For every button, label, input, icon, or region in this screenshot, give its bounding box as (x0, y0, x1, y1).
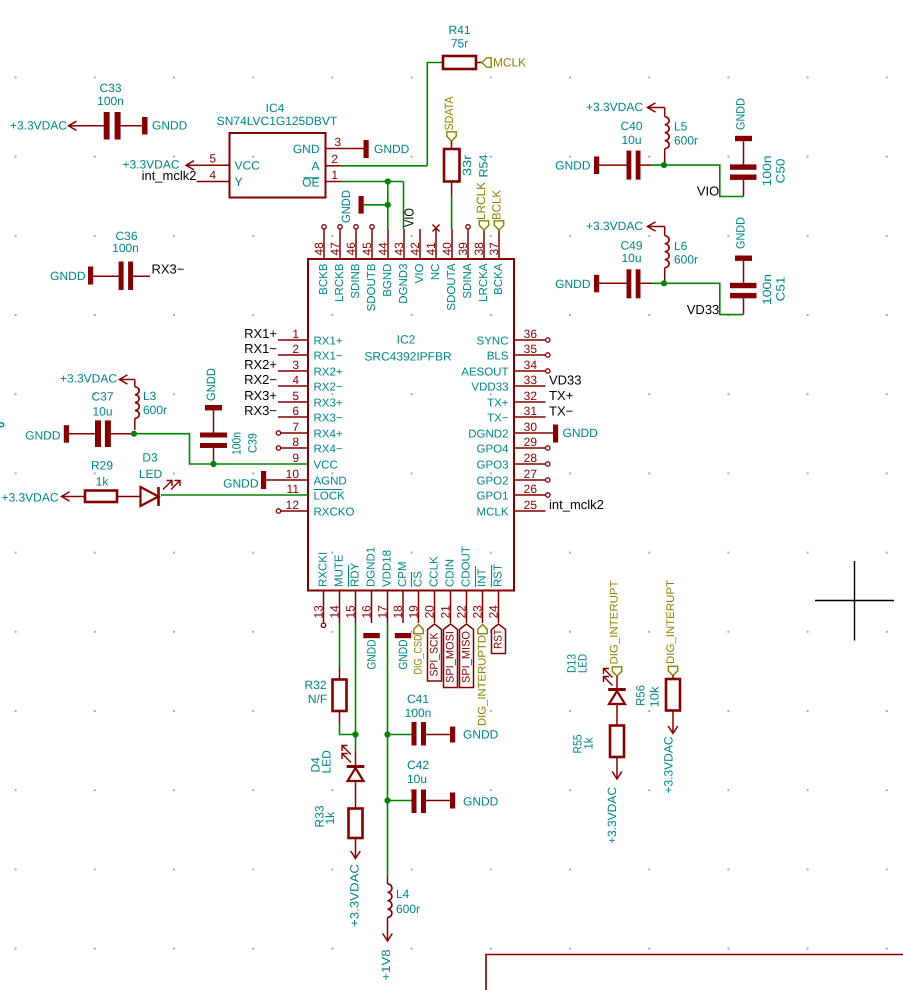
svg-text:2: 2 (331, 152, 338, 166)
resistor R33 1k (313, 805, 363, 838)
svg-text:12: 12 (286, 498, 300, 512)
svg-text:RX2−: RX2− (314, 381, 343, 393)
power +3.3VDAC below R55 (605, 757, 622, 844)
svg-text:IC4: IC4 (266, 101, 285, 115)
label int_mclk2 at IC2 pin 25 (549, 497, 604, 512)
svg-text:LED: LED (320, 750, 334, 774)
IC4 pin 1 OE (302, 168, 341, 190)
svg-text:1k: 1k (323, 811, 337, 825)
svg-text:4: 4 (209, 168, 216, 182)
IC2 pin 28 GPO3 (right) (477, 451, 550, 471)
svg-text:37: 37 (487, 242, 501, 256)
IC4 pin 4 Y (197, 168, 243, 189)
svg-text:TX−: TX− (487, 412, 509, 424)
svg-text:33r: 33r (460, 155, 474, 176)
svg-text:+3.3VDAC: +3.3VDAC (586, 219, 643, 233)
svg-text:100n: 100n (112, 241, 139, 255)
IC2 pin 34 AESOUT (right) (461, 358, 550, 378)
svg-text:AESOUT: AESOUT (461, 366, 508, 378)
global label SPI_MOSI at pin 21 (444, 624, 458, 688)
svg-text:LED: LED (139, 467, 163, 481)
svg-text:L5: L5 (674, 120, 688, 134)
IC2 pin 16 DGND1 (bottom) (360, 547, 378, 623)
svg-text:VDD18: VDD18 (382, 550, 394, 587)
wire SDATA to R54 (451, 141, 453, 149)
svg-text:2: 2 (292, 342, 299, 356)
capacitor C41 100n (388, 692, 451, 746)
power GNDD at C40 (555, 157, 599, 175)
power +3.3VDAC at C33 (10, 118, 81, 132)
svg-text:31: 31 (524, 404, 538, 418)
IC2 pin 37 BCKA (top) (487, 229, 505, 295)
IC2 pin 45 SDOUTB (top) (360, 225, 378, 312)
wire D4 to R33 (355, 781, 357, 809)
svg-text:+3.3VDAC: +3.3VDAC (1, 491, 58, 505)
svg-text:CPM: CPM (397, 561, 409, 587)
IC2 pin 39 SDINA (top) (456, 225, 474, 299)
svg-text:VCC: VCC (314, 459, 338, 471)
svg-text:GNDD: GNDD (152, 118, 188, 132)
svg-text:600r: 600r (674, 253, 698, 267)
power GNDD at C41 (450, 727, 499, 743)
svg-text:GNDD: GNDD (204, 368, 218, 401)
svg-text:C50: C50 (774, 158, 788, 183)
svg-text:L3: L3 (143, 389, 157, 403)
svg-text:TX−: TX− (549, 404, 573, 419)
svg-text:DGND3: DGND3 (398, 264, 410, 304)
svg-text:46: 46 (344, 242, 358, 256)
IC2 pin 42 VIO (top) (408, 229, 426, 283)
IC2 pin 40 SDOUTA (top) (440, 229, 458, 311)
svg-text:DIG_INTERUPTD: DIG_INTERUPTD (477, 635, 489, 726)
IC2 pin 33 VDD33 (right) (471, 373, 545, 393)
IC2 pin 7 RX4+ (left) (276, 420, 343, 440)
IC2 pin 10 AGND (left) (266, 467, 347, 487)
svg-text:39: 39 (456, 242, 470, 256)
svg-text:RDY: RDY (350, 562, 362, 587)
power GNDD at C42 (450, 793, 499, 809)
wire R41 to MCLK (476, 62, 482, 64)
power GNDD at IC4 pin 3 (364, 140, 410, 158)
svg-text:1: 1 (292, 327, 299, 341)
svg-text:VD33: VD33 (549, 373, 582, 388)
capacitor C39 100n (200, 405, 260, 464)
svg-text:RX3−: RX3− (152, 262, 185, 277)
op-amp buffer IC4 SN74LVC1G125DBVT body (217, 101, 338, 198)
resistor R56 10k (634, 676, 681, 711)
hierarchical label DIG_INTERUPT at R56 (665, 580, 678, 676)
IC2 pin 29 GPO4 (right) (477, 435, 550, 455)
IC2 pin 14 MUTE (bottom) (328, 554, 346, 623)
wire C40 right (641, 164, 653, 166)
svg-text:R41: R41 (448, 23, 470, 37)
svg-text:10k: 10k (648, 685, 662, 707)
svg-text:5: 5 (209, 152, 216, 166)
IC2 pin 6 RX3- (left) (244, 403, 343, 424)
svg-text:RX2−: RX2− (244, 372, 277, 387)
hierarchical label BCLK at pin 37 (490, 190, 504, 230)
svg-text:CDOUT: CDOUT (461, 546, 473, 587)
svg-text:SN74LVC1G125DBVT: SN74LVC1G125DBVT (217, 114, 338, 128)
svg-text:C41: C41 (407, 692, 429, 706)
IC2 pin 8 RX4- (left) (276, 435, 343, 455)
svg-text:RX3−: RX3− (314, 412, 343, 424)
svg-text:LOCK: LOCK (314, 490, 346, 502)
svg-text:GNDD: GNDD (365, 639, 379, 669)
svg-text:18: 18 (391, 605, 405, 619)
label RX3- at C36 (152, 262, 185, 277)
svg-text:RX1+: RX1+ (244, 326, 277, 341)
svg-text:33: 33 (524, 373, 538, 387)
svg-text:GNDD: GNDD (555, 159, 591, 173)
svg-text:+3.3VDAC: +3.3VDAC (586, 100, 643, 114)
hierarchical label DIG_CSD at pin 19 (413, 625, 425, 675)
capacitor C36 (112, 229, 139, 290)
svg-text:VIO: VIO (402, 208, 417, 227)
svg-text:MCLK: MCLK (477, 506, 509, 518)
svg-text:48: 48 (312, 242, 326, 256)
svg-text:29: 29 (524, 435, 538, 449)
power GNDD above IC2 pin 44 (339, 190, 388, 223)
cursor crosshair (815, 561, 894, 641)
IC2 pin 43 DGND3 (top) (392, 229, 410, 304)
power +3.3VDAC at R29 (1, 491, 85, 505)
wire OE net to pins 44/43 (342, 182, 404, 230)
svg-text:RST: RST (493, 629, 505, 649)
IC2 pin 36 SYNC (right) (477, 327, 550, 347)
svg-text:35: 35 (524, 342, 538, 356)
svg-text:RX4−: RX4− (314, 443, 343, 455)
svg-text:Y: Y (235, 175, 243, 189)
svg-text:SDINB: SDINB (350, 263, 362, 298)
svg-text:LRCKB: LRCKB (334, 263, 346, 302)
svg-text:N/F: N/F (308, 692, 327, 706)
wire C49 left (599, 282, 627, 284)
wire net VD33 (652, 283, 743, 314)
junction L5/C40 (661, 162, 667, 168)
IC2 pin 38 LRCKA (top) (472, 229, 490, 302)
IC2 pin 44 BGND (top) (376, 229, 394, 297)
LED D4 (309, 746, 365, 782)
svg-text:SDATA: SDATA (442, 97, 456, 131)
svg-text:SRC4392IPFBR: SRC4392IPFBR (364, 350, 452, 364)
label VD33 (687, 302, 720, 317)
svg-text:LRCKA: LRCKA (478, 263, 490, 302)
IC2 pin 20 CCLK (bottom) (423, 556, 441, 623)
svg-text:3: 3 (292, 358, 299, 372)
svg-text:A: A (311, 159, 319, 173)
power GNDD above C50 (734, 98, 748, 130)
wire pin 17 down (387, 623, 389, 877)
power +3.3VDAC below R56 (662, 711, 678, 794)
svg-text:SDOUTB: SDOUTB (366, 263, 378, 311)
svg-text:LED: LED (576, 654, 590, 673)
hierarchical label LRCLK at pin 38 (474, 182, 489, 230)
svg-text:BCKB: BCKB (318, 263, 330, 295)
label VIO at IC2 pin 42 (402, 208, 417, 227)
svg-text:100n: 100n (230, 432, 244, 455)
IC2 pin 26 GPO1 (right) (477, 482, 550, 502)
IC2 pin 11 LOCK (left) (287, 482, 346, 502)
svg-text:IC2: IC2 (397, 333, 416, 347)
svg-text:VCC: VCC (235, 159, 261, 173)
svg-text:BCLK: BCLK (490, 190, 504, 220)
label VIO (697, 184, 719, 199)
wire R32 to pin15 net (340, 723, 356, 735)
svg-text:38: 38 (472, 242, 486, 256)
svg-text:RST: RST (493, 564, 505, 587)
IC IC2 SRC4392IPFBR body (308, 259, 514, 591)
wire IC4 pin A to R41 (net int_mclk2 buffered) (342, 63, 444, 166)
LED D3 (139, 451, 180, 507)
svg-text:GNDD: GNDD (50, 269, 86, 283)
svg-text:TX+: TX+ (487, 397, 509, 409)
power GNDD at IC2 pin 16 (363, 633, 380, 670)
resistor R32 N/F (304, 668, 346, 724)
IC2 pin 3 RX2+ (left) (244, 357, 343, 378)
resistor R29 1k (85, 459, 117, 503)
IC2 pin 31 TX- (right) (487, 404, 545, 424)
IC2 pin 21 CDIN (bottom) (439, 559, 457, 623)
svg-text:40: 40 (440, 242, 454, 256)
IC2 pin 27 GPO2 (right) (477, 467, 550, 487)
capacitor C50 100n (730, 136, 788, 197)
junction L3/C37 (131, 431, 137, 437)
svg-text:10u: 10u (621, 133, 641, 147)
global label SPI_MISO at pin 22 (460, 624, 474, 688)
svg-text:RX3+: RX3+ (244, 388, 277, 403)
svg-text:RX4+: RX4+ (314, 428, 343, 440)
svg-text:GNDD: GNDD (25, 429, 61, 443)
wire net VIO (652, 165, 743, 196)
label int_mclk2 at IC4 pin 4 (142, 168, 197, 183)
junction C41 (384, 731, 390, 737)
svg-text:GNDD: GNDD (374, 142, 410, 156)
capacitor C40 10u (620, 119, 642, 180)
IC4 pin 3 GND (293, 135, 364, 156)
svg-text:MUTE: MUTE (334, 554, 346, 587)
svg-text:CDIN: CDIN (445, 559, 457, 587)
svg-text:AGND: AGND (314, 475, 347, 487)
svg-text:GPO2: GPO2 (477, 475, 509, 487)
svg-text:25: 25 (524, 498, 538, 512)
IC2 pin 46 SDINB (top) (344, 225, 362, 299)
power GNDD at C36 (50, 267, 93, 285)
label TX+ at IC2 pin 32 (549, 388, 573, 403)
power +3.3VDAC at L5 (586, 100, 665, 114)
IC4 pin 5 VCC (196, 152, 260, 173)
IC2 pin 47 LRCKB (top) (328, 225, 346, 302)
svg-text:VIO: VIO (697, 184, 719, 199)
svg-text:30: 30 (524, 420, 538, 434)
IC2 pin 18 CPM (bottom) (391, 561, 409, 623)
capacitor C33 (97, 81, 124, 140)
junction at OE net (385, 178, 391, 184)
wire C33 left (81, 125, 104, 127)
svg-text:28: 28 (524, 451, 538, 465)
svg-text:SDOUTA: SDOUTA (446, 263, 458, 310)
svg-text:NC: NC (430, 264, 442, 281)
wire D13 to R55 (616, 704, 618, 726)
wire C36 left (93, 275, 119, 277)
svg-text:int_mclk2: int_mclk2 (142, 168, 197, 183)
svg-text:SPI_SCK: SPI_SCK (429, 632, 441, 677)
svg-text:RXCKI: RXCKI (318, 552, 330, 587)
svg-text:RX3+: RX3+ (314, 397, 343, 409)
svg-text:+1V8: +1V8 (379, 949, 393, 980)
IC2 pin 35 BLS (right) (487, 342, 550, 362)
IC2 pin 9 VCC (left) (292, 451, 337, 471)
svg-text:C42: C42 (407, 758, 429, 772)
svg-text:SPI_MOSI: SPI_MOSI (445, 631, 457, 683)
wire R54 to IC2 pin 40 (451, 182, 453, 230)
svg-text:GPO3: GPO3 (477, 459, 509, 471)
IC2 pin 2 RX1- (left) (244, 341, 343, 362)
svg-text:100n: 100n (97, 94, 124, 108)
svg-text:7: 7 (292, 420, 299, 434)
IC4 pin 2 A (311, 152, 341, 173)
global label SPI_SCK at pin 20 (428, 624, 442, 681)
svg-text:GNDD: GNDD (339, 190, 353, 223)
svg-text:GNDD: GNDD (463, 795, 499, 809)
clipped text at left edge (0, 423, 4, 427)
IC2 pin 12 RXCKO (left) (276, 498, 354, 518)
IC2 pin 5 RX3+ (left) (244, 388, 343, 409)
svg-text:13: 13 (312, 605, 326, 619)
svg-text:GPO4: GPO4 (477, 443, 510, 455)
svg-text:DGND1: DGND1 (366, 547, 378, 587)
junction C39/pin9 (210, 461, 216, 467)
wire C49 right (641, 282, 653, 284)
svg-text:GNDD: GNDD (734, 98, 748, 130)
svg-text:GNDD: GNDD (734, 217, 748, 249)
svg-text:4: 4 (292, 373, 299, 387)
power GNDD at IC2 pin 10 AGND (223, 471, 266, 491)
svg-text:GNDD: GNDD (563, 426, 599, 440)
inductor L4 600r (388, 877, 421, 918)
LED D13 (565, 654, 626, 704)
svg-text:8: 8 (292, 435, 299, 449)
svg-text:C40: C40 (620, 119, 642, 133)
IC2 pin 32 TX+ (right) (487, 389, 545, 409)
junction R32/pin15 (352, 731, 358, 737)
svg-text:26: 26 (524, 482, 538, 496)
svg-text:DIG_INTERUPT: DIG_INTERUPT (609, 580, 621, 664)
svg-text:INT: INT (477, 568, 489, 587)
IC2 pin 19 CS (bottom) (407, 571, 425, 623)
resistor R54 33r (444, 149, 491, 182)
sheet border frame (decorative) (486, 955, 903, 990)
IC2 pin 25 MCLK (right) (477, 498, 546, 518)
svg-text:GPO1: GPO1 (477, 490, 509, 502)
svg-text:R32: R32 (304, 678, 326, 692)
power +3.3VDAC at IC4 pin 5 (122, 158, 196, 172)
power GNDD at IC2 pin 30 DGND2 (546, 425, 599, 443)
junction L6/C49 (661, 280, 667, 286)
power GNDD above C39 (204, 368, 218, 401)
hierarchical label DIG_INTERUPT at D13 (609, 580, 622, 676)
wire C37 to junction (111, 433, 134, 435)
svg-text:C33: C33 (99, 81, 121, 95)
IC2 pin 22 CDOUT (bottom) (455, 546, 473, 623)
svg-text:DIG_CSD: DIG_CSD (413, 634, 425, 674)
hierarchical label SDATA (442, 97, 456, 142)
power GNDD at C49 (555, 275, 599, 293)
svg-text:RX2+: RX2+ (314, 366, 343, 378)
capacitor C51 100n (730, 256, 788, 315)
svg-text:+3.3VDAC: +3.3VDAC (60, 372, 117, 386)
wire C40 left (599, 164, 627, 166)
IC2 pin 15 RDY (bottom) (344, 562, 362, 623)
label TX- at IC2 pin 31 (549, 404, 573, 419)
svg-text:1k: 1k (96, 475, 110, 489)
svg-text:L6: L6 (674, 239, 688, 253)
svg-text:600r: 600r (143, 403, 167, 417)
svg-text:14: 14 (328, 605, 342, 619)
svg-text:RX3−: RX3− (244, 403, 277, 418)
wire net VCC to IC2 pin 9 (134, 434, 308, 464)
svg-text:VDD33: VDD33 (471, 381, 508, 393)
svg-text:GND: GND (293, 142, 320, 156)
IC2 pin 30 DGND2 (right) (468, 420, 545, 440)
svg-text:RXCKO: RXCKO (314, 506, 355, 518)
capacitor C42 10u (388, 758, 451, 813)
svg-text:600r: 600r (396, 902, 420, 916)
wire D3 to IC2 pin 11 (161, 494, 308, 496)
svg-text:10u: 10u (621, 251, 641, 265)
svg-text:20: 20 (423, 605, 437, 619)
svg-text:100n: 100n (760, 156, 774, 187)
IC2 pin 24 RST (bottom) (487, 564, 505, 623)
junction GNDD to pin44 line (385, 202, 391, 208)
svg-text:10u: 10u (407, 772, 427, 786)
svg-text:44: 44 (376, 242, 390, 256)
svg-text:5: 5 (292, 389, 299, 403)
svg-text:1: 1 (331, 168, 338, 182)
svg-text:11: 11 (287, 482, 300, 496)
svg-text:R54: R54 (477, 154, 491, 177)
power GNDD at C33 (142, 117, 188, 135)
capacitor C49 10u (620, 239, 642, 299)
svg-text:17: 17 (376, 605, 390, 619)
svg-text:GNDD: GNDD (463, 728, 499, 742)
wire R29 to D3 (117, 496, 141, 498)
resistor R55 1k (571, 726, 625, 758)
svg-text:SPI_MISO: SPI_MISO (461, 631, 473, 683)
svg-text:75r: 75r (451, 37, 468, 51)
inductor L6 600r (665, 227, 698, 284)
svg-text:42: 42 (408, 242, 422, 256)
svg-text:VD33: VD33 (687, 302, 720, 317)
svg-text:34: 34 (524, 358, 538, 372)
svg-text:DGND2: DGND2 (468, 428, 508, 440)
svg-text:36: 36 (524, 327, 538, 341)
svg-text:CS: CS (413, 571, 425, 587)
svg-text:+3.3VDAC: +3.3VDAC (348, 864, 362, 927)
wire pin 14 to R32 (339, 623, 341, 668)
hierarchical label DIG_INTERUPTD at pin 23 (477, 625, 489, 727)
global label RST at pin 24 (492, 624, 506, 654)
svg-text:+3.3VDAC: +3.3VDAC (605, 787, 619, 844)
inductor L5 600r (665, 108, 698, 166)
svg-text:BLS: BLS (487, 350, 509, 362)
svg-text:VIO: VIO (414, 263, 426, 283)
power GNDD above C51 (734, 217, 748, 249)
svg-text:R29: R29 (91, 459, 113, 473)
svg-text:27: 27 (524, 467, 538, 481)
inductor L3 600r (135, 380, 167, 431)
svg-text:32: 32 (524, 389, 538, 403)
